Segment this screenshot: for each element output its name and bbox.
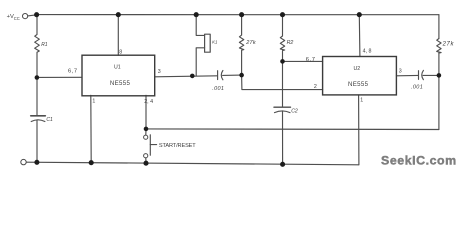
wire U1 pin 2,4 <box>145 95 147 129</box>
relay K1 body <box>205 34 211 52</box>
svg-text:R1: R1 <box>41 42 48 48</box>
svg-text:NE555: NE555 <box>348 81 369 88</box>
capacitor .001 left <box>217 71 219 80</box>
capacitor .001 right <box>418 71 420 80</box>
wire R1 to C1 <box>36 78 38 116</box>
wire U1 pin 3 output <box>155 76 218 77</box>
svg-text:START/RESET: START/RESET <box>159 143 196 149</box>
wire U2 pin 1 <box>358 95 360 165</box>
svg-text:.001: .001 <box>212 86 224 92</box>
capacitor C1 <box>31 115 46 117</box>
terminal bottom-left circle <box>21 159 26 164</box>
wire C1 to bottom rail <box>36 120 38 162</box>
wire U2 pin 2 jog <box>242 75 323 90</box>
svg-text:R2: R2 <box>287 40 294 46</box>
wire cap to right 27k node <box>423 74 439 76</box>
wire R2 node to C2 <box>282 61 284 106</box>
wire U1 pin 8 <box>117 15 119 56</box>
node junction dots <box>34 12 441 167</box>
wire right vertical <box>438 15 440 39</box>
wire bottom rail <box>26 162 359 165</box>
svg-text:27k: 27k <box>442 41 455 47</box>
wire top rail <box>28 15 37 16</box>
relay K1 leads <box>196 15 204 36</box>
wire cap to 27k node <box>223 74 242 76</box>
resistor 27k right <box>437 39 441 54</box>
svg-text:1: 1 <box>360 98 363 104</box>
wire U2 pin 4,8 <box>358 15 361 57</box>
svg-text:2: 2 <box>314 84 317 90</box>
svg-text:C2: C2 <box>291 108 298 114</box>
svg-text:1: 1 <box>92 98 95 104</box>
svg-text:27k: 27k <box>245 40 257 46</box>
terminal +Vcc circle <box>23 14 28 19</box>
resistor R2 <box>280 15 284 62</box>
svg-text:NE555: NE555 <box>110 80 131 87</box>
wire U1 pin 6,7 <box>37 76 82 78</box>
IC U2 box <box>323 57 397 95</box>
svg-text:3: 3 <box>158 69 161 75</box>
switch S1 wires <box>145 129 147 135</box>
wire U1 pin 1 <box>90 95 92 162</box>
wire feedback line <box>146 128 439 131</box>
svg-text:6,7: 6,7 <box>68 68 78 74</box>
svg-text:2, 4: 2, 4 <box>144 99 153 105</box>
svg-text:U1: U1 <box>114 64 121 70</box>
wire U2 pin 3 output <box>396 74 418 76</box>
switch S1 actuator bar <box>149 135 151 156</box>
svg-text:K1: K1 <box>212 39 218 44</box>
IC U1 box <box>82 55 155 96</box>
switch S1 contact circles <box>144 135 148 139</box>
wire C2 to bottom rail <box>282 111 284 164</box>
wire U2 pin 6,7 <box>283 60 323 62</box>
svg-text:C1: C1 <box>46 117 53 123</box>
svg-text:.001: .001 <box>411 85 423 91</box>
svg-text:4, 8: 4, 8 <box>363 49 372 55</box>
svg-text:3: 3 <box>399 69 402 75</box>
resistor 27k left <box>239 15 243 76</box>
svg-text:CC: CC <box>14 16 20 21</box>
svg-text:SeekIC.com: SeekIC.com <box>381 154 457 168</box>
svg-text:U2: U2 <box>354 66 361 72</box>
svg-text:8: 8 <box>119 49 122 55</box>
resistor R1 <box>35 15 40 78</box>
capacitor C2 <box>274 106 291 108</box>
svg-text:6,7: 6,7 <box>306 57 316 63</box>
